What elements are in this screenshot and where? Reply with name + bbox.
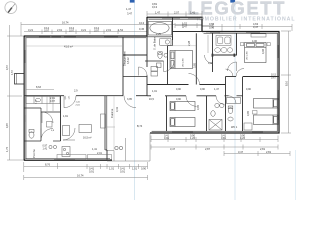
door arc dining entry [124, 96, 136, 108]
wall top middle block [147, 16, 203, 18]
window mark left wall [24, 50, 26, 63]
window mark left wall lower [24, 115, 26, 122]
texts lower band [36, 86, 155, 155]
wall hallway left [122, 37, 124, 96]
svg-text:2,91: 2,91 [57, 28, 63, 32]
svg-text:16,5: 16,5 [149, 98, 154, 101]
kitchen island [79, 125, 91, 133]
svg-text:1,41: 1,41 [92, 148, 97, 151]
svg-text:2,81: 2,81 [266, 150, 272, 154]
bed bedroom4 twin2 [170, 118, 195, 127]
svg-text:3,21: 3,21 [28, 28, 34, 32]
svg-text:2,01: 2,01 [106, 28, 112, 32]
svg-text:4,57: 4,57 [5, 64, 9, 70]
svg-text:3,47: 3,47 [182, 25, 188, 29]
wall shower room left [206, 96, 208, 131]
svg-text:8,63: 8,63 [36, 86, 41, 89]
svg-text:3,5 m²: 3,5 m² [127, 57, 130, 64]
terrace thin edges [107, 133, 150, 161]
wall top left block inner [26, 37, 147, 39]
svg-text:0,91: 0,91 [89, 169, 95, 173]
svg-text:0,91: 0,91 [120, 169, 126, 173]
wall hallway south [123, 76, 147, 78]
dim line right vertical [288, 31, 290, 133]
dim line right top [202, 26, 292, 28]
dim rows bottom left block [24, 166, 148, 168]
svg-text:0,67: 0,67 [271, 77, 276, 80]
wall corridor south [165, 95, 186, 97]
wall bedroom4 left [166, 96, 168, 131]
wall bottom right wing [150, 132, 280, 134]
svg-text:3,47: 3,47 [170, 147, 176, 151]
left bump window bay [15, 74, 25, 85]
door arc laundry door [164, 61, 175, 72]
bathroom2 vanity [215, 36, 233, 53]
bed bedroom4 twin1 [170, 102, 195, 111]
svg-text:0,97: 0,97 [50, 100, 55, 103]
bed bedroom3 twin2 [254, 115, 279, 125]
svg-text:3,95: 3,95 [196, 104, 200, 110]
wall bed3 north [226, 76, 237, 78]
door arc kitchen entry [64, 96, 76, 108]
wall x225 vertical [225, 77, 227, 132]
wall bathroom2 right [236, 33, 238, 55]
door arcs bathroom2 [228, 62, 237, 71]
svg-text:4,06: 4,06 [261, 48, 265, 54]
wall wc2 north [226, 95, 229, 97]
wall laundry right [167, 46, 169, 85]
fridge appliance [63, 126, 70, 136]
washer laundry [151, 63, 161, 76]
svg-text:Porche: Porche [32, 149, 36, 158]
svg-text:1,52: 1,52 [118, 28, 124, 32]
wall kitchen/dining vertical [104, 96, 106, 150]
door arc kitchen [63, 128, 75, 140]
svg-text:2,87: 2,87 [205, 147, 211, 151]
wall bathroom east lower [172, 37, 174, 46]
beam line living [26, 45, 122, 47]
line terrace inner [113, 96, 115, 150]
svg-text:1,01: 1,01 [69, 95, 71, 100]
svg-text:0,9: 0,9 [51, 130, 55, 132]
svg-text:3,41: 3,41 [115, 106, 119, 112]
closet dividers [47, 97, 53, 112]
window marks top wall [39, 36, 118, 38]
terrace edge bottom [107, 160, 150, 162]
wall hatch fills [25, 18, 278, 159]
wall small rooms vertical [60, 96, 62, 141]
wall top right block [202, 31, 280, 33]
svg-text:2,9: 2,9 [74, 90, 78, 93]
wall hallway right [146, 36, 148, 96]
svg-text:B,74: B,74 [137, 125, 143, 128]
wall bathroom2 south [212, 54, 237, 56]
kitchen counter top band [26, 97, 60, 104]
toilet bath1 [158, 52, 168, 59]
svg-text:180 x 200: 180 x 200 [247, 50, 249, 60]
wall bottom left block [24, 159, 112, 161]
bed bedroom2 [245, 43, 267, 63]
svg-text:4,06: 4,06 [252, 40, 257, 43]
svg-text:2,28: 2,28 [187, 40, 191, 46]
svg-text:1,75: 1,75 [5, 146, 9, 152]
dim line top main [21, 24, 202, 26]
shower room fixtures [209, 103, 224, 130]
svg-text:0,90: 0,90 [209, 25, 215, 29]
door arc hallway east [139, 67, 148, 76]
svg-text:1,91: 1,91 [63, 115, 68, 118]
wall bath1 south [145, 60, 164, 62]
wardrobe bedroom3 [244, 123, 252, 130]
svg-text:0,13: 0,13 [152, 5, 158, 9]
svg-text:3,47: 3,47 [238, 150, 244, 154]
wall hallway top [123, 54, 147, 56]
terrace edge vertical right [149, 133, 151, 161]
svg-text:2,91: 2,91 [65, 95, 67, 100]
wall wc2 right [242, 77, 244, 132]
wall bedroom1 right [195, 33, 197, 84]
svg-text:16,74: 16,74 [77, 174, 84, 178]
wall bathroom bottom [147, 36, 173, 38]
svg-text:1,41: 1,41 [43, 148, 48, 151]
sink counter bath1 [160, 38, 172, 46]
wc2 fixtures [227, 98, 241, 122]
svg-text:1,47: 1,47 [214, 88, 219, 91]
line dining inner [107, 126, 115, 128]
svg-text:0,91: 0,91 [221, 136, 227, 140]
bedside tables bedroom2 [241, 43, 244, 46]
svg-text:0,91: 0,91 [164, 136, 170, 140]
door arc shower room [216, 96, 225, 105]
wall corridor north [147, 84, 189, 86]
svg-text:0,90: 0,90 [141, 167, 147, 171]
fold line blue left [130, 0, 135, 200]
door arc wc2 [229, 96, 237, 104]
svg-text:1,41: 1,41 [190, 10, 196, 14]
toilet left wc [29, 130, 34, 139]
svg-text:8,76: 8,76 [45, 163, 51, 167]
stove appliance [62, 147, 70, 157]
svg-text:0,13: 0,13 [139, 21, 145, 25]
door arc hall bath [205, 55, 214, 64]
fold line blue right [230, 0, 235, 200]
svg-text:1,26: 1,26 [240, 136, 246, 140]
svg-text:2,81: 2,81 [260, 147, 266, 151]
svg-text:3,47: 3,47 [127, 12, 133, 16]
svg-text:1,47: 1,47 [155, 10, 161, 14]
rotated dim texts left/right [5, 40, 289, 152]
wall bathroom right vertical [172, 18, 174, 41]
window mark bottom left wall [54, 158, 75, 160]
wall top left block outer [24, 35, 148, 37]
svg-text:0,45: 0,45 [139, 27, 145, 31]
basin entry room [47, 122, 53, 128]
wall left inner [25, 38, 27, 160]
svg-text:3,21: 3,21 [81, 28, 87, 32]
svg-text:0,90: 0,90 [176, 98, 181, 101]
svg-text:WC 1: WC 1 [231, 126, 238, 129]
svg-text:1,01: 1,01 [109, 167, 115, 171]
fold line short bottom right [295, 150, 297, 200]
stove circles [115, 146, 123, 149]
wall closet south [173, 31, 203, 33]
wall step down right block [201, 17, 203, 32]
door arc closet [42, 112, 53, 123]
dim line living south [26, 88, 54, 90]
svg-text:16,5 m²: 16,5 m² [83, 137, 92, 140]
svg-text:1,01: 1,01 [132, 167, 138, 171]
window sill bedroom2 [251, 34, 266, 37]
bedside bedroom3 [253, 111, 258, 115]
wall small room vertical 2 [40, 108, 42, 141]
svg-text:0,90: 0,90 [208, 62, 213, 65]
svg-text:41,6 m²: 41,6 m² [64, 45, 73, 49]
svg-text:2,25: 2,25 [156, 33, 161, 36]
svg-text:1,57: 1,57 [10, 69, 14, 75]
svg-text:0,90: 0,90 [246, 88, 251, 91]
svg-text:1,01: 1,01 [152, 90, 157, 93]
svg-text:Cuisine: Cuisine [110, 108, 114, 118]
svg-text:1,71: 1,71 [36, 99, 38, 104]
svg-text:1,26: 1,26 [190, 136, 196, 140]
wall right outer [278, 32, 280, 134]
kitchen dresser [101, 114, 106, 128]
svg-text:3,47: 3,47 [253, 25, 259, 29]
svg-text:4,87: 4,87 [5, 122, 9, 128]
north arrow [5, 2, 17, 14]
bathtub [148, 22, 172, 36]
wall living/lower band [24, 95, 64, 97]
wall wc horizontal [24, 140, 41, 142]
svg-text:16,74: 16,74 [62, 21, 69, 25]
svg-text:1,47: 1,47 [126, 7, 132, 11]
dim line left vertical [9, 25, 11, 160]
svg-text:0,97: 0,97 [69, 28, 75, 32]
sofa against south wall [57, 155, 86, 160]
corridor texts [152, 33, 276, 101]
svg-text:180 x 200: 180 x 200 [183, 57, 185, 67]
wall step up middle block [146, 17, 148, 36]
svg-text:3,95: 3,95 [246, 110, 250, 116]
svg-text:0,97: 0,97 [44, 28, 50, 32]
porch texts [43, 145, 48, 151]
porch threshold circles [49, 145, 57, 148]
door arc bedroom1 [189, 74, 200, 85]
wall left outer [23, 36, 25, 161]
dim line middle top [147, 13, 202, 15]
bed bedroom3 twin1 [254, 99, 279, 109]
dim line inside middle closet [175, 25, 213, 27]
svg-text:2,01: 2,01 [76, 104, 81, 106]
svg-text:IMMOBILIER INTERNATIONAL: IMMOBILIER INTERNATIONAL [197, 17, 296, 23]
svg-text:2,01: 2,01 [97, 152, 102, 155]
svg-text:S. de Bains: S. de Bains [153, 36, 157, 50]
terrace post line [113, 151, 115, 162]
watermark LEGGETT [188, 0, 296, 23]
bed bedroom1 [170, 51, 193, 69]
window marks bottom wall [172, 131, 263, 133]
svg-text:8,10: 8,10 [285, 80, 289, 86]
svg-text:0,90: 0,90 [200, 88, 205, 91]
dim inside hall vertical [207, 35, 209, 53]
svg-text:0,90: 0,90 [176, 88, 181, 91]
bedroom1 inner line [169, 45, 196, 47]
window marks top right wall [162, 18, 260, 32]
wall hall/bathroom2 [212, 33, 214, 72]
wall fragment middle [147, 95, 151, 97]
svg-text:1,41: 1,41 [76, 102, 81, 104]
dim rows bottom right wing [151, 139, 278, 141]
door arc bedroom4 [186, 96, 197, 107]
window marks right wall [277, 45, 279, 120]
svg-text:2,07: 2,07 [174, 10, 180, 14]
svg-text:3,95: 3,95 [127, 98, 132, 101]
svg-text:0,97: 0,97 [94, 28, 100, 32]
buffet against south wall [88, 155, 112, 160]
dim line top row2 [24, 31, 147, 33]
door arc wc porch [41, 129, 53, 141]
